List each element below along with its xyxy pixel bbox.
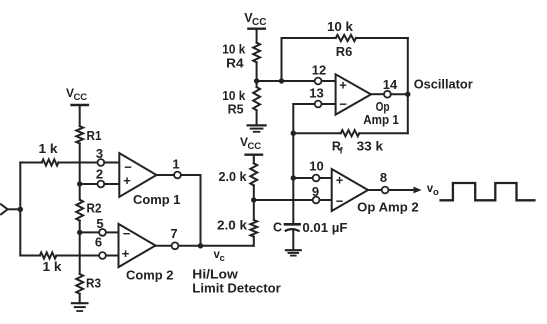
svg-text:2: 2 bbox=[96, 167, 103, 182]
wire R2 to R3 bbox=[79, 221, 81, 274]
wire cap to ground bbox=[292, 230, 294, 250]
wire R6 right horiz bbox=[356, 37, 408, 39]
wire pin2 tap bbox=[80, 183, 98, 185]
resistor 1k lower bbox=[40, 252, 57, 258]
svg-text:CC: CC bbox=[252, 17, 266, 28]
svg-text:Op Amp 2: Op Amp 2 bbox=[357, 200, 419, 215]
pin 7 terminal bbox=[172, 242, 179, 249]
ground cap bbox=[286, 249, 301, 251]
capacitor C bottom plate bbox=[285, 229, 300, 231]
svg-text:CC: CC bbox=[247, 141, 261, 152]
node osc out bbox=[405, 92, 410, 97]
svg-text:1 k: 1 k bbox=[39, 142, 58, 156]
svg-text:Oscillator: Oscillator bbox=[414, 77, 473, 92]
op-amp U2 Op Amp 2 bbox=[332, 169, 368, 211]
svg-text:12: 12 bbox=[312, 63, 326, 78]
op-amp U1 Op Amp 1 bbox=[336, 74, 371, 114]
svg-text:R4: R4 bbox=[226, 57, 244, 71]
wire R4 to R5 bbox=[256, 62, 258, 87]
wire osc output vertical bbox=[407, 38, 409, 133]
power VCC mid bar bbox=[246, 153, 262, 155]
wire Rf right bbox=[359, 132, 408, 134]
svg-text:9: 9 bbox=[312, 184, 319, 199]
svg-text:14: 14 bbox=[383, 77, 398, 92]
svg-text:1: 1 bbox=[172, 157, 179, 172]
node R6 tap bbox=[279, 78, 284, 83]
svg-text:5: 5 bbox=[96, 216, 103, 231]
svg-text:1 k: 1 k bbox=[43, 260, 62, 274]
svg-text:Hi/Low: Hi/Low bbox=[192, 267, 238, 282]
wire pin9 row bbox=[254, 199, 313, 201]
svg-text:8: 8 bbox=[380, 170, 387, 185]
wire pin6 to comp2 bbox=[106, 255, 119, 257]
svg-text:10 k: 10 k bbox=[222, 43, 245, 57]
pin 8 terminal bbox=[382, 187, 389, 194]
svg-text:CC: CC bbox=[73, 92, 87, 103]
pin 13 terminal bbox=[315, 101, 322, 108]
power VCC left bar bbox=[72, 104, 88, 106]
pin 9 terminal bbox=[313, 197, 320, 204]
wire comp1 out down bbox=[200, 175, 202, 246]
svg-text:+: + bbox=[123, 173, 131, 188]
wire VCC to R4 bbox=[256, 29, 258, 43]
svg-text:+: + bbox=[122, 246, 130, 261]
capacitor C top plate bbox=[285, 223, 300, 226]
node pin10 tap bbox=[291, 175, 296, 180]
wire opamp1 out bbox=[371, 93, 384, 95]
wire pin9 to opamp2 bbox=[320, 199, 332, 201]
pin 10 terminal bbox=[313, 175, 320, 182]
wire R5 to ground bbox=[256, 110, 258, 125]
pin 2 terminal bbox=[98, 181, 105, 188]
svg-text:Amp 1: Amp 1 bbox=[363, 112, 399, 127]
wire pin12 to opamp1 bbox=[322, 80, 336, 82]
wire comp2 out right bbox=[178, 245, 253, 247]
op-amp Comp2 bbox=[119, 224, 156, 267]
svg-text:2.0 k: 2.0 k bbox=[217, 219, 247, 233]
wire comp1 out right bbox=[181, 174, 201, 176]
wire 2k upper to node bbox=[253, 185, 255, 220]
svg-text:+: + bbox=[339, 78, 347, 93]
wire input to 1k upper bbox=[20, 162, 42, 164]
wire 2k lower to vc bbox=[253, 237, 255, 246]
resistor 2.0k upper bbox=[250, 163, 257, 185]
wire 1k lower to pin6 bbox=[56, 255, 99, 257]
resistor Rf bbox=[341, 130, 360, 136]
wire 1k upper to pin3 bbox=[58, 162, 97, 164]
svg-text:o: o bbox=[433, 187, 439, 198]
wire VCC to R1 bbox=[79, 105, 81, 126]
resistor 1k upper bbox=[42, 159, 59, 165]
wire VCC to 2k upper bbox=[253, 155, 255, 164]
ground R5 bbox=[248, 124, 266, 126]
pin 6 terminal bbox=[99, 252, 106, 259]
resistor R4 bbox=[253, 43, 260, 63]
power VCC top bar bbox=[248, 28, 264, 30]
wire R6 left horiz bbox=[282, 37, 336, 39]
node Rf tap bbox=[291, 131, 296, 136]
svg-text:33 k: 33 k bbox=[357, 140, 384, 154]
node vc junction bbox=[198, 243, 203, 248]
square wave vo bbox=[441, 183, 535, 200]
svg-text:−: − bbox=[336, 194, 344, 209]
svg-text:R3: R3 bbox=[86, 277, 101, 291]
pin 14 terminal bbox=[384, 91, 391, 98]
svg-text:7: 7 bbox=[170, 226, 177, 241]
svg-text:R1: R1 bbox=[87, 129, 102, 143]
wire pin5 tap bbox=[80, 231, 99, 233]
svg-text:Limit Detector: Limit Detector bbox=[192, 281, 280, 296]
wire R3 to ground bbox=[79, 294, 81, 303]
svg-text:10 k: 10 k bbox=[222, 89, 245, 103]
wire R1 to R2 bbox=[79, 144, 81, 200]
wire pin10 row bbox=[293, 177, 312, 179]
pin 5 terminal bbox=[99, 229, 106, 236]
svg-text:3: 3 bbox=[96, 146, 103, 161]
op-amp Comp1 bbox=[119, 153, 156, 197]
svg-text:0.01 µF: 0.01 µF bbox=[302, 221, 347, 235]
wire pin5 to comp2 bbox=[106, 231, 119, 233]
pin 12 terminal bbox=[315, 78, 322, 85]
wire pin13 to opamp1 bbox=[322, 103, 336, 105]
svg-text:−: − bbox=[123, 226, 131, 241]
pin 3 terminal bbox=[98, 159, 105, 166]
svg-text:c: c bbox=[220, 253, 225, 264]
wire pin2 to comp1 bbox=[104, 183, 119, 185]
wire left input bus bbox=[19, 163, 21, 256]
arrow vo bbox=[414, 187, 422, 194]
resistor R3 bbox=[76, 274, 83, 294]
wire pin10 to opamp2 bbox=[320, 177, 332, 179]
svg-text:13: 13 bbox=[309, 86, 323, 101]
wire comp2 out bbox=[156, 245, 172, 247]
wire Rf left bbox=[293, 132, 341, 134]
wire pin12 row bbox=[257, 80, 315, 82]
wire feedback vertical bbox=[292, 104, 294, 224]
node 2k divider bbox=[251, 197, 256, 202]
svg-text:R6: R6 bbox=[336, 45, 353, 59]
wire pin3 to comp1 bbox=[104, 162, 119, 164]
resistor R6 bbox=[336, 35, 356, 41]
pin 1 terminal bbox=[174, 172, 181, 179]
svg-text:Comp 2: Comp 2 bbox=[126, 268, 174, 283]
svg-text:R5: R5 bbox=[228, 103, 244, 117]
wire comp1 out bbox=[157, 174, 175, 176]
resistor R2 bbox=[76, 200, 83, 221]
svg-text:C: C bbox=[273, 220, 282, 234]
wire opamp2 out bbox=[368, 189, 382, 191]
svg-text:6: 6 bbox=[95, 235, 102, 250]
node R4R5 bbox=[254, 78, 259, 83]
input terminal bbox=[1, 204, 8, 214]
svg-text:10 k: 10 k bbox=[327, 20, 353, 34]
node input junction bbox=[18, 207, 23, 212]
svg-text:10: 10 bbox=[309, 159, 323, 174]
wire pin8 right bbox=[389, 189, 415, 191]
resistor R5 bbox=[253, 87, 260, 110]
svg-text:R2: R2 bbox=[87, 202, 102, 216]
wire R6 left vertical bbox=[281, 38, 283, 81]
resistor R1 bbox=[76, 126, 83, 143]
svg-text:−: − bbox=[339, 97, 347, 112]
svg-text:Comp 1: Comp 1 bbox=[133, 192, 181, 207]
node pin5 tap bbox=[77, 230, 82, 235]
node pin2 tap bbox=[77, 181, 82, 186]
wire pin14 right bbox=[391, 93, 408, 95]
ground R3 bbox=[72, 302, 88, 304]
resistor 2.0k lower bbox=[250, 220, 257, 237]
svg-text:+: + bbox=[336, 173, 344, 188]
svg-text:2.0 k: 2.0 k bbox=[219, 170, 247, 184]
wire input to 1k lower bbox=[20, 255, 40, 257]
wire pin13 row bbox=[293, 103, 314, 105]
